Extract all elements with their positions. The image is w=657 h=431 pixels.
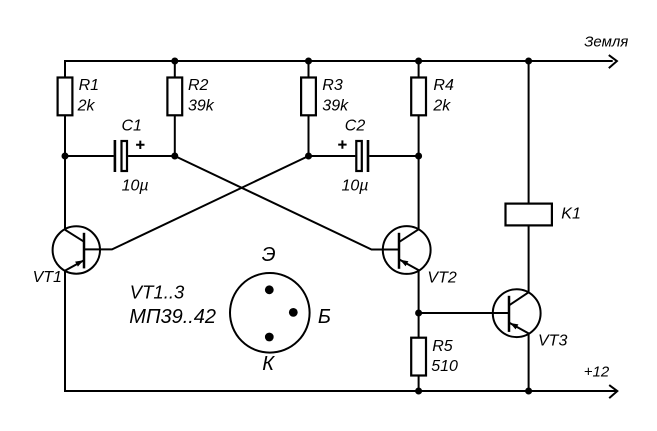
svg-text:Б: Б	[318, 306, 331, 328]
svg-text:10µ: 10µ	[342, 177, 369, 194]
svg-text:R5: R5	[432, 338, 453, 355]
svg-text:VT2: VT2	[427, 270, 456, 287]
svg-text:Э: Э	[262, 244, 276, 266]
svg-text:VT3: VT3	[538, 333, 567, 350]
svg-text:R1: R1	[79, 77, 99, 94]
svg-text:K1: K1	[561, 205, 581, 222]
svg-text:39k: 39k	[188, 97, 215, 114]
svg-text:VT1: VT1	[33, 269, 62, 286]
svg-text:МП39..42: МП39..42	[129, 306, 216, 328]
svg-text:510: 510	[431, 358, 458, 375]
svg-text:R3: R3	[322, 77, 343, 94]
svg-text:10µ: 10µ	[122, 177, 149, 194]
svg-text:R2: R2	[188, 77, 209, 94]
svg-text:R4: R4	[433, 77, 454, 94]
svg-text:К: К	[262, 353, 275, 375]
svg-text:C2: C2	[345, 118, 366, 135]
svg-text:VT1..3: VT1..3	[130, 281, 185, 302]
svg-text:+12: +12	[584, 363, 610, 380]
svg-text:C1: C1	[122, 118, 142, 135]
svg-text:39k: 39k	[322, 97, 349, 114]
svg-text:2k: 2k	[77, 97, 96, 114]
svg-text:2k: 2k	[432, 97, 451, 114]
svg-text:Земля: Земля	[584, 34, 628, 51]
